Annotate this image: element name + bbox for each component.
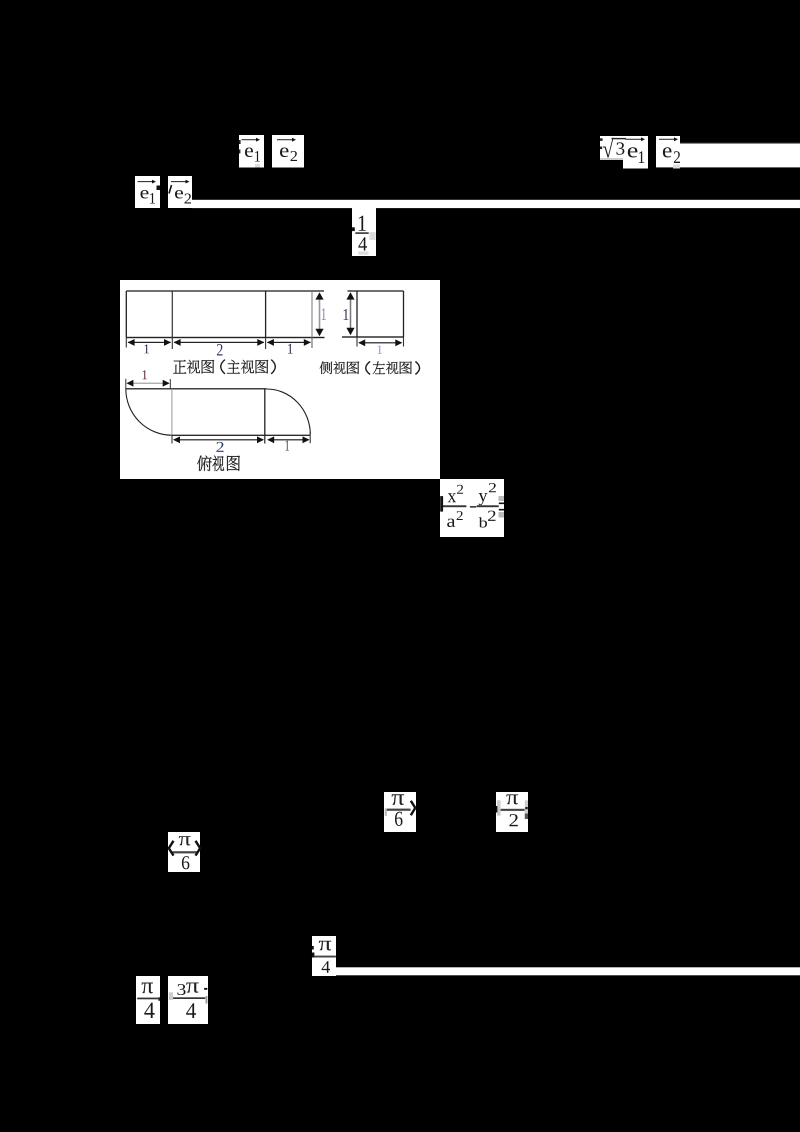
formula image: vector e2 (row 1) — [272, 135, 304, 168]
top view bottom dimension arrows 2,1 — [171, 432, 310, 452]
formula image: fraction 1/4 — [352, 207, 376, 256]
formula image: sqrt(3) e1 (top right) — [600, 136, 648, 169]
white strip row 2 (to right margin) — [192, 200, 800, 208]
formula image: 3pi/4 — [168, 976, 208, 1024]
side view rectangle — [342, 290, 404, 337]
front view rectangle — [126, 290, 325, 338]
formula image: vector e2 (top right) — [656, 136, 680, 169]
formula image: vector e1 (row 2) — [135, 176, 160, 208]
caption: side view label — [320, 361, 333, 374]
white strip after pi/4 (to right margin) — [336, 967, 800, 975]
formula image: pi/6 (first) — [384, 792, 416, 832]
formula image: vector e1 (row 1) — [239, 135, 264, 168]
formula image: x^2/a^2 - y^2/b^2 = — [440, 479, 504, 537]
formula image: pi/4 (upper) — [312, 936, 336, 976]
formula image: pi/6 (second) — [168, 832, 200, 872]
front view height dimension arrow (1) — [315, 292, 326, 336]
formula image: vector e2 (row 2) — [168, 176, 192, 208]
top view outline — [125, 370, 310, 436]
white strip after e2 (row 1, to right margin) — [680, 144, 800, 167]
side view height dimension arrow (1) — [343, 292, 354, 335]
formula image: pi/2 — [496, 792, 528, 832]
caption: front view label — [173, 360, 186, 374]
caption: top view label — [197, 456, 212, 471]
front view bottom dimension arrows 1,2,1 — [126, 338, 313, 356]
three-view drawing image background — [120, 280, 440, 479]
side view bottom dimension arrow (1) — [356, 337, 404, 354]
formula image: pi/4 (lower left) — [136, 976, 160, 1024]
